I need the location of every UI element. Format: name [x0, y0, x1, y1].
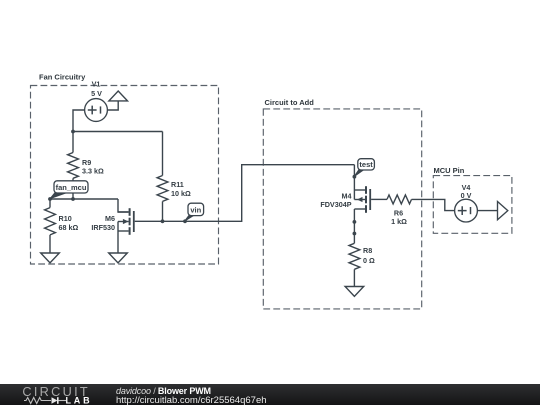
svg-text:FDV304P: FDV304P	[320, 200, 351, 209]
junction at R9 bottom	[71, 197, 75, 201]
svg-text:test: test	[359, 160, 373, 169]
wire test node down to M4	[353, 165, 355, 200]
resistor R11	[157, 132, 168, 222]
svg-text:M4: M4	[342, 191, 352, 200]
junction at R10 top	[48, 197, 52, 201]
junction at test flag	[353, 175, 357, 179]
wire node A bus to R11 top	[73, 131, 163, 133]
svg-text:MCU Pin: MCU Pin	[434, 166, 465, 175]
resistor R6	[387, 195, 455, 211]
flipped ground at V1 negative	[109, 91, 128, 101]
wire M6 gate to vin node and over to Circuit to Add	[135, 165, 355, 222]
svg-text:vin: vin	[190, 205, 201, 214]
wire V4 to pin symbol	[477, 210, 497, 212]
svg-text:10 kΩ: 10 kΩ	[171, 189, 191, 198]
wire fan_mcu bus	[50, 198, 118, 200]
wire M4 drain down to R8	[353, 209, 355, 243]
pin symbol triangle	[498, 202, 508, 220]
resistor R10	[45, 199, 56, 253]
svg-text:5 V: 5 V	[91, 89, 102, 98]
MCU Pin dashed box	[433, 166, 512, 234]
svg-text:Fan Circuitry: Fan Circuitry	[39, 73, 86, 82]
flag vin	[185, 203, 204, 221]
svg-text:V1: V1	[92, 80, 101, 89]
CircuitLab logo	[0, 384, 100, 405]
svg-text:Circuit to Add: Circuit to Add	[265, 98, 315, 107]
resistor R8	[349, 243, 360, 286]
svg-text:M6: M6	[105, 214, 115, 223]
flag test	[354, 159, 374, 177]
resistor R9	[68, 132, 79, 200]
wire M4 gate to R6	[371, 198, 387, 200]
junction dot lower	[353, 232, 357, 236]
svg-text:68 kΩ: 68 kΩ	[59, 223, 79, 232]
node A junction	[71, 130, 75, 134]
wire V1 left terminal to node A	[73, 110, 85, 132]
junction dot upper	[353, 220, 357, 224]
svg-text:IRF530: IRF530	[91, 223, 115, 232]
svg-text:0 V: 0 V	[461, 191, 472, 200]
svg-text:R9: R9	[82, 158, 91, 167]
transistor M4	[354, 186, 371, 213]
svg-text:0 Ω: 0 Ω	[363, 256, 375, 265]
svg-text:R11: R11	[171, 180, 184, 189]
wire fan_mcu bus to M6 drain	[118, 199, 129, 212]
svg-text:LAB: LAB	[66, 396, 93, 405]
wire V1 right terminal to flipped ground	[107, 101, 118, 111]
transistor M6	[118, 208, 135, 235]
svg-text:3.3 kΩ: 3.3 kΩ	[82, 167, 104, 176]
junction at vin flag	[183, 219, 187, 223]
ground below R8	[345, 287, 364, 297]
voltage source V4	[455, 199, 478, 222]
svg-text:R8: R8	[363, 246, 372, 255]
ground below M6	[109, 253, 128, 263]
svg-text:fan_mcu: fan_mcu	[56, 183, 87, 192]
Circuit to Add dashed box	[263, 98, 421, 309]
flag fan_mcu	[50, 181, 88, 199]
svg-text:R10: R10	[59, 214, 72, 223]
ground below R10	[41, 253, 60, 263]
junction at R11 bottom	[161, 219, 165, 223]
Fan Circuitry dashed box	[31, 73, 219, 265]
wire M6 source to ground	[117, 222, 119, 254]
voltage source V1	[85, 99, 108, 122]
svg-text:1 kΩ: 1 kΩ	[391, 217, 407, 226]
